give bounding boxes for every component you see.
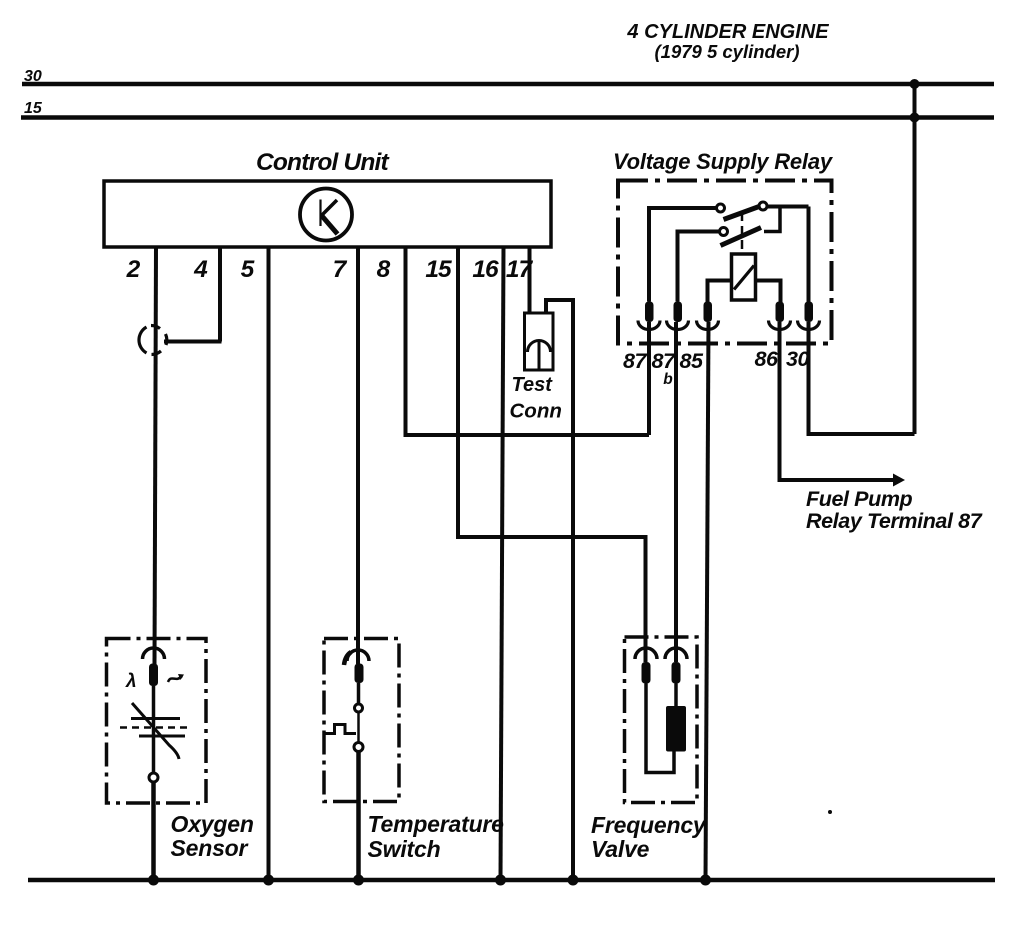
wire terminal 87b down to frequency valve right terminal [674, 322, 678, 662]
wire terminal 87 riser to switch1 [649, 208, 717, 302]
test connector body [525, 313, 554, 370]
svg-text:Fuel Pump: Fuel Pump [806, 487, 913, 511]
junction dot bus15 [910, 113, 920, 123]
switch2 lever [721, 228, 762, 246]
frequency valve right terminal [665, 648, 687, 684]
svg-text:2: 2 [126, 256, 141, 283]
control unit K symbol [300, 189, 352, 241]
frequency valve internal wires [646, 684, 674, 773]
switch2 left contact [720, 228, 728, 236]
wire pin4 down and left to connector [164, 247, 222, 342]
oxygen sensor terminal [143, 648, 165, 686]
junction dot bus30 [910, 79, 920, 89]
wire switch1 to terminal 30 riser [767, 207, 809, 303]
svg-text:86: 86 [755, 347, 779, 371]
svg-text:15: 15 [24, 100, 43, 117]
wire pin16 to ground [501, 247, 504, 880]
svg-text:7: 7 [333, 256, 348, 283]
switch1 lever [724, 206, 761, 220]
connector circle on pin2 wire [139, 327, 147, 353]
svg-text:Sensor: Sensor [171, 835, 249, 861]
wire terminal 85 down to ground [706, 322, 709, 880]
relay terminal 85 [697, 302, 719, 330]
control unit box [104, 181, 551, 247]
svg-text:Oxygen: Oxygen [171, 811, 254, 837]
ground bus [28, 878, 995, 883]
wire terminal 87b riser to switch2 [678, 232, 720, 302]
svg-text:30: 30 [786, 347, 809, 371]
svg-text:b: b [663, 371, 673, 388]
frequency valve box (dash-dot) [625, 637, 698, 803]
svg-text:Voltage Supply Relay: Voltage Supply Relay [613, 149, 834, 174]
svg-text:Test: Test [512, 374, 554, 396]
wire temperature switch to ground [356, 752, 361, 881]
switch1 left contact [717, 204, 725, 212]
svg-text:Relay Terminal 87: Relay Terminal 87 [806, 509, 983, 533]
temperature switch bimetal [324, 725, 356, 734]
wire terminal 87 down to pin8 horizontal [647, 322, 651, 435]
wire horizontal to terminal 30 [809, 322, 915, 434]
wire coil right to terminal 86 [756, 281, 781, 303]
svg-text:15: 15 [425, 256, 452, 283]
temperature switch box (dash-dot) [324, 639, 399, 802]
frequency valve left terminal [635, 648, 657, 684]
relay terminal 87 [638, 302, 660, 330]
wire pin8 to relay terminal 87 [406, 247, 650, 435]
wire terminal 86 down to fuel pump arrow [780, 322, 896, 480]
speck [828, 810, 832, 814]
svg-text:Conn: Conn [510, 400, 562, 423]
relay coil [732, 254, 756, 300]
temperature switch contacts [357, 683, 361, 704]
wire coil left to terminal 85 [708, 281, 732, 303]
relay terminal 87b [667, 302, 689, 330]
svg-text:87: 87 [652, 349, 676, 373]
small arrow symbol [168, 676, 182, 682]
svg-text:16: 16 [472, 256, 499, 283]
bus 30 [22, 82, 994, 87]
temperature switch terminal [344, 650, 369, 683]
relay actuator link dashes [741, 212, 744, 250]
svg-text:87: 87 [623, 349, 647, 373]
wire link top wire to switch2 right end [764, 208, 780, 232]
oxygen sensor variable resistor [120, 703, 187, 759]
frequency valve coil [666, 706, 686, 752]
bus 15 [21, 115, 994, 120]
svg-text:85: 85 [680, 349, 704, 373]
switch1 right contact [759, 202, 767, 210]
wire pin2 to oxygen sensor [155, 247, 157, 664]
svg-text:λ: λ [125, 671, 137, 692]
wire test connector branch to ground [546, 300, 573, 880]
svg-text:4: 4 [193, 256, 208, 283]
svg-text:Switch: Switch [368, 836, 441, 862]
oxygen sensor wire and contact circle [152, 686, 156, 773]
ground junction dots [148, 875, 159, 886]
svg-text:8: 8 [377, 256, 391, 283]
svg-text:4 CYLINDER ENGINE: 4 CYLINDER ENGINE [626, 21, 829, 43]
svg-text:5: 5 [241, 256, 255, 283]
wire pin15 to frequency valve left terminal [458, 247, 646, 662]
svg-text:(1979 5 cylinder): (1979 5 cylinder) [655, 41, 800, 62]
arrowhead fuel pump [893, 474, 905, 487]
oxygen sensor box (dash-dot) [107, 639, 207, 804]
relay box (dash-dot) [618, 181, 832, 344]
wire right vertical from bus 30 down [913, 82, 917, 434]
wire pin7 to temperature switch [356, 247, 360, 664]
svg-text:Temperature: Temperature [368, 811, 505, 837]
wire pin5 to ground [267, 247, 271, 880]
relay terminal 30 [798, 302, 820, 330]
relay terminal 86 [769, 302, 791, 330]
wire pin17 to test connector [528, 247, 532, 313]
svg-text:Valve: Valve [591, 836, 650, 862]
svg-text:Control Unit: Control Unit [256, 149, 390, 176]
svg-text:Frequency: Frequency [591, 812, 707, 838]
